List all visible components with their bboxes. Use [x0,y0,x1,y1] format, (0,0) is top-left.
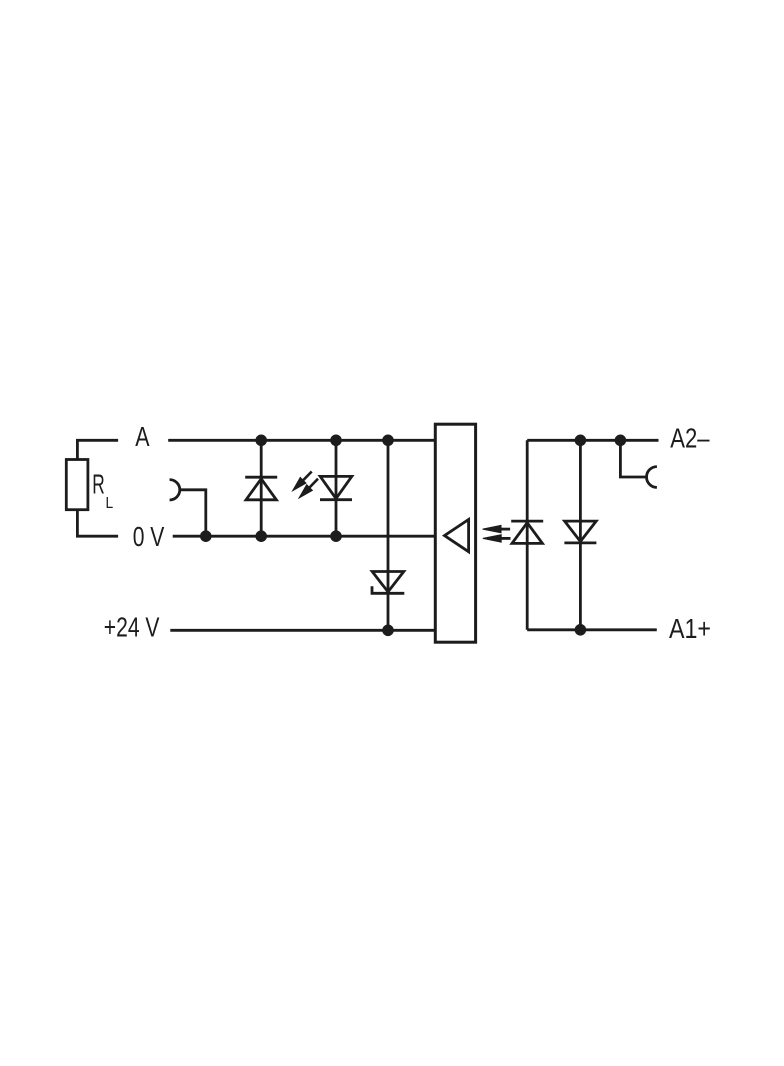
light arrow into U1 upper [483,525,511,532]
wire A2-line top [527,439,658,442]
svg-text:A: A [135,421,150,452]
wire branch D1 [260,440,263,536]
optocoupler receiver triangle [445,520,469,552]
junction dot A-line D1 [255,435,267,447]
wire A1-line bottom [527,628,657,631]
wire right middle-branch [579,440,582,630]
optocoupler box U1 [435,424,475,642]
diode D1 [245,477,277,500]
LED D2 [320,476,352,499]
LED D2 light arrow 2 [299,479,318,498]
junction dot A2 tap [615,435,627,447]
zener diode D3 [372,572,404,594]
wire connector to 0V [180,490,206,536]
wire +24V-line [170,629,435,632]
LED D2 light arrow 1 [293,472,312,491]
LED D4 output side [511,521,543,543]
wire resistor bottom to 0V label [77,510,118,537]
connector socket left [170,480,180,500]
resistor R_L [66,460,88,510]
junction dot A-line D3 [382,435,394,447]
junction dot A1 middle-branch [575,624,587,636]
wire right left-branch [526,440,529,630]
junction dot 0V connector [200,530,212,542]
svg-text:A2–: A2– [670,423,710,454]
junction dot A-line D2 [330,435,342,447]
wire 0V-line main [173,535,436,538]
junction dot A2 middle-branch [575,435,587,447]
svg-text:R: R [92,469,105,500]
wire branch D2 LED [335,440,338,536]
wire A-line main [168,439,435,442]
svg-text:0 V: 0 V [133,521,165,552]
connector socket right [647,467,657,488]
svg-text:+24 V: +24 V [104,611,160,642]
wire A2 tap to connector [620,440,645,477]
junction dot +24V D3 [382,625,394,637]
diode D5 freewheel [564,521,596,543]
svg-text:L: L [106,495,114,512]
junction dot 0V D1 [255,530,267,542]
light arrow into U1 lower [483,535,511,542]
wire A-line left stub to resistor [77,440,118,459]
junction dot 0V D2 [330,530,342,542]
wire branch D3 zener [387,440,390,630]
svg-text:A1+: A1+ [669,613,711,644]
